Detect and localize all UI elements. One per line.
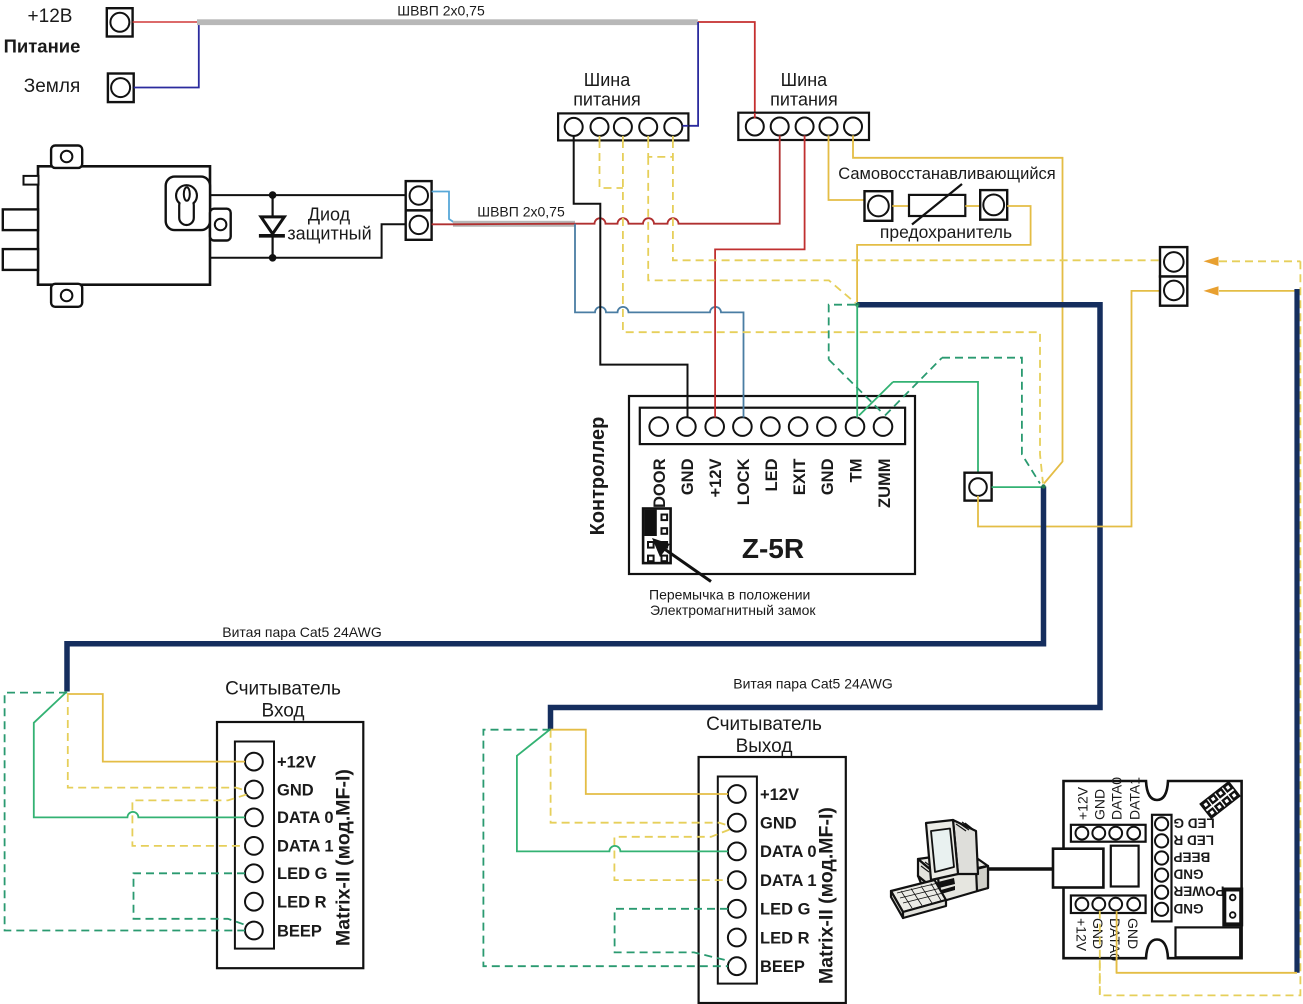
adapter bottom block <box>1176 927 1241 957</box>
wire blue cable to bus1 <box>683 22 698 126</box>
cable ШВВП 2х0,75 top <box>197 19 698 25</box>
floppy slot <box>934 878 955 889</box>
pin LED <box>761 417 780 436</box>
pin GND2 <box>817 417 836 436</box>
svg-text:LED R: LED R <box>277 894 327 912</box>
wire stub yellow adapter DATA0 <box>1116 911 1118 973</box>
svg-text:LED G: LED G <box>760 901 810 919</box>
svg-text:Витая пара Cat5 24AWG: Витая пара Cat5 24AWG <box>222 624 381 640</box>
svg-text:Matrix-II (мод.MF-I): Matrix-II (мод.MF-I) <box>333 769 355 946</box>
adapter middle block <box>1111 846 1139 887</box>
svg-text:+12В: +12В <box>28 6 73 27</box>
svg-text:Matrix-II (мод.MF-I): Matrix-II (мод.MF-I) <box>816 807 838 984</box>
wire stub black into GND <box>687 395 689 418</box>
reader 1 pin DATA 0 <box>245 809 263 827</box>
cable junction node (to reader 1) <box>1041 484 1045 488</box>
keyboard top <box>891 880 946 912</box>
wire red bus2 to controller +12V <box>715 140 805 409</box>
computer cable <box>983 867 1053 870</box>
svg-text:ШВВП 2х0,75: ШВВП 2х0,75 <box>397 3 485 19</box>
case right shade <box>976 866 988 891</box>
wire stub blue into LOCK <box>743 395 745 418</box>
wire fuse link right <box>965 205 980 207</box>
jumper arrow <box>652 538 711 582</box>
svg-text:GND: GND <box>760 815 797 833</box>
reader 1 pin GND <box>245 781 263 799</box>
svg-text:DATA0: DATA0 <box>1108 777 1124 820</box>
svg-text:LOCK: LOCK <box>735 458 753 505</box>
reader 2 wire green dashed BEEP <box>483 730 728 967</box>
svg-text:DATA 0: DATA 0 <box>277 809 334 827</box>
monitor vents <box>956 822 974 831</box>
svg-text:защитный: защитный <box>287 224 371 244</box>
terminal +12V <box>107 8 133 36</box>
reader 2 pin LED R <box>728 929 746 947</box>
svg-text:DATA0: DATA0 <box>1107 918 1123 961</box>
dashed yellow bus1 c2 jog <box>600 140 623 188</box>
reader 1 pin LED G <box>245 864 263 882</box>
wire red lock feed <box>432 140 780 224</box>
wire blue cable2 to LOCK <box>575 224 744 409</box>
svg-text:EXIT: EXIT <box>791 459 809 496</box>
pin +12V <box>705 417 724 436</box>
dashed yellow bus1 c3 long run to junction <box>623 140 1043 484</box>
wire green dashed diagonal ZUMM to right <box>885 358 942 416</box>
wire yellow bus2 c4 to fuse <box>829 140 865 200</box>
svg-text:Земля: Земля <box>24 76 80 97</box>
svg-text:питания: питания <box>770 90 838 110</box>
adapter left plug <box>1053 849 1103 888</box>
USB adapter box <box>1064 781 1242 958</box>
svg-text:TM: TM <box>848 459 866 483</box>
lock bottom mounting tab <box>51 284 82 307</box>
svg-text:предохранитель: предохранитель <box>880 222 1012 242</box>
svg-text:POWER: POWER <box>1173 884 1224 899</box>
svg-text:BEEP: BEEP <box>277 922 322 940</box>
svg-text:LED G: LED G <box>277 865 327 883</box>
lock left stub 1 <box>3 209 38 230</box>
lock left stub small <box>24 176 39 185</box>
svg-text:Шина: Шина <box>584 70 631 90</box>
dashed yellow arrow into block <box>1204 257 1301 266</box>
pin GND <box>677 417 696 436</box>
keyboard side <box>903 900 946 918</box>
reader 2 wire yellow +12V <box>551 730 729 794</box>
reader 2 Matrix-II box <box>699 757 846 1003</box>
svg-text:Вход: Вход <box>262 701 305 722</box>
lock left stub 2 <box>3 249 38 270</box>
reader 1 wire yellow +12V <box>67 694 245 762</box>
monitor right side <box>953 820 978 874</box>
svg-text:DATA1: DATA1 <box>1126 777 1142 820</box>
svg-text:Контроллер: Контроллер <box>587 417 609 536</box>
svg-text:DATA 0: DATA 0 <box>760 843 817 861</box>
navy cable to reader 2 <box>551 305 1101 729</box>
pin DOOR <box>649 417 668 436</box>
computer <box>891 820 1053 918</box>
svg-text:GND: GND <box>1173 867 1203 882</box>
wire green dashed diagonal into ZUMM <box>829 360 883 414</box>
svg-text:Электромагнитный замок: Электромагнитный замок <box>650 602 816 618</box>
reader 2 wire yellow dashed DATA 1 <box>614 830 729 881</box>
jumper block <box>643 509 671 564</box>
wire fuse link left <box>892 205 909 207</box>
reader 2 terminal strip <box>718 777 757 984</box>
svg-text:Шина: Шина <box>781 70 828 90</box>
reader 2 pin GND <box>728 814 746 832</box>
svg-text:Питание: Питание <box>4 36 81 57</box>
lock top mounting tab <box>51 146 82 168</box>
svg-text:DATA 1: DATA 1 <box>760 872 817 890</box>
case body top <box>918 852 988 876</box>
green solid wire TM to TM-contact terminal <box>893 382 978 478</box>
terminal Земля <box>108 74 134 103</box>
case vents left <box>921 862 933 872</box>
svg-text:Диод: Диод <box>308 205 351 225</box>
keyboard keys <box>897 883 943 908</box>
svg-text:BEEP: BEEP <box>1174 850 1211 865</box>
reader 1 wire green solid DATA 0 <box>34 692 245 818</box>
svg-text:Z-5R: Z-5R <box>742 533 804 564</box>
green solid wire junction to TM <box>856 305 858 413</box>
yellow wire navy end to adapter DATA0 <box>1117 910 1297 973</box>
case right <box>938 866 988 902</box>
reader 1 pin DATA 1 <box>245 837 263 855</box>
wire stubs bus1 pins <box>574 126 689 141</box>
green wire TM-contact to junction <box>992 486 1042 488</box>
svg-text:+12V: +12V <box>277 753 316 771</box>
svg-text:GND: GND <box>819 458 837 495</box>
svg-text:GND: GND <box>1090 918 1106 949</box>
yellow wire TM-contact to замок arrow row <box>978 291 1160 527</box>
svg-text:Витая пара Cat5 24AWG: Витая пара Cat5 24AWG <box>733 676 892 692</box>
reader 1 pin BEEP <box>245 922 263 940</box>
svg-text:Считыватель: Считыватель <box>225 679 341 700</box>
wire yellow fuse out to cable junction <box>857 206 1031 302</box>
wire yellow bus2 c5 to reader1 feed <box>853 140 1063 484</box>
reader 2 wire green dashed LED G to BEEP <box>615 909 730 961</box>
svg-text:DOOR: DOOR <box>651 458 669 508</box>
solid yellow arrow into block <box>1204 286 1296 295</box>
svg-text:BEEP: BEEP <box>760 958 805 976</box>
reader 1 wire yellow dashed GND <box>68 694 246 791</box>
svg-text:Самовосстанавливающийся: Самовосстанавливающийся <box>838 165 1055 183</box>
reader 1 pin +12V <box>245 753 263 771</box>
fuse left terminal <box>865 191 893 221</box>
reader 1 pin LED R <box>245 893 263 911</box>
svg-text:LED R: LED R <box>1173 832 1214 847</box>
reader 2 pin DATA 1 <box>728 871 746 889</box>
svg-text:GND: GND <box>1125 918 1141 949</box>
reader 1 terminal strip <box>235 742 274 949</box>
wire red cable to bus2 <box>698 22 755 119</box>
TM remote terminal block <box>1160 247 1187 306</box>
svg-text:+12V: +12V <box>707 459 725 498</box>
PTC fuse body <box>909 184 965 225</box>
adapter jumper header (skewed) <box>1200 782 1239 818</box>
case front bottom <box>918 876 940 902</box>
dashed yellow bus1 c4 row2 to cable junction <box>648 157 855 303</box>
pin ZUMM <box>874 417 893 436</box>
svg-text:ZUMM: ZUMM <box>876 459 894 508</box>
svg-text:Считыватель: Считыватель <box>706 714 822 735</box>
svg-text:LED G: LED G <box>1174 815 1215 830</box>
dashed yellow right edge loop <box>1100 261 1301 995</box>
navy cable to reader 1 <box>67 487 1044 692</box>
wire blue terminal to cable2 <box>432 192 455 224</box>
pin LOCK <box>733 417 752 436</box>
svg-text:Выход: Выход <box>736 736 793 757</box>
power bus 2 <box>738 113 869 140</box>
pin TM <box>846 417 865 436</box>
dashed yellow GND row to arrow block <box>648 140 673 157</box>
reader 1 Matrix-II box <box>217 722 363 968</box>
green dashed wire junction to ZUMM <box>829 305 855 360</box>
wire blue ground to cable <box>134 22 199 88</box>
reader 1 wire yellow dashed DATA 1 <box>132 795 246 846</box>
TM contact terminal <box>965 473 992 501</box>
wire green solid into TM <box>856 380 858 418</box>
reader 2 wire yellow dashed GND <box>551 730 729 826</box>
cable ШВВП 2х0,75 to lock <box>453 221 575 227</box>
monitor front <box>926 820 958 880</box>
svg-text:ШВВП 2х0,75: ШВВП 2х0,75 <box>477 204 565 220</box>
adapter bottom header <box>1071 896 1146 914</box>
controller Z-5R box <box>629 396 915 574</box>
reader 2 pin +12V <box>728 785 746 803</box>
fuse right terminal <box>980 190 1007 220</box>
reader 1 wire green dashed BEEP <box>5 693 245 931</box>
diode VD1 <box>259 191 285 261</box>
svg-text:GND: GND <box>277 781 314 799</box>
adapter top header <box>1071 825 1146 842</box>
svg-text:GND: GND <box>1091 789 1107 820</box>
power bus 1 <box>558 113 688 140</box>
wire green solid diagonal TM <box>859 382 893 416</box>
lock right tab <box>210 209 231 241</box>
cable junction node (to reader 2) <box>855 303 859 307</box>
controller terminal strip <box>640 408 905 444</box>
monitor screen <box>931 829 954 873</box>
keyboard front <box>891 891 903 918</box>
wire red +12V to cable <box>133 21 199 23</box>
svg-text:LED R: LED R <box>760 929 810 947</box>
svg-text:Перемычка в положении: Перемычка в положении <box>649 587 810 603</box>
wire lock bottom to terminal <box>210 224 406 257</box>
reader 2 pin LED G <box>728 900 746 918</box>
svg-text:GND: GND <box>679 458 697 495</box>
adapter 2-pin connector <box>1224 890 1241 925</box>
keyhole <box>176 185 197 206</box>
wire stub yellow dashed adapter GND <box>1099 911 1101 995</box>
reader 1 wire green dashed LED G to BEEP <box>134 873 248 925</box>
svg-text:+12V: +12V <box>1073 918 1089 952</box>
reader 2 pin DATA 0 <box>728 843 746 861</box>
lock cylinder plate <box>166 177 210 231</box>
svg-text:LED: LED <box>763 458 781 491</box>
navy cable right edge <box>1294 289 1299 973</box>
svg-text:питания: питания <box>573 90 641 110</box>
reader 2 pin BEEP <box>728 957 746 975</box>
adapter right strip <box>1152 815 1172 922</box>
electromagnetic lock body <box>3 146 231 307</box>
case front-left <box>918 859 940 894</box>
svg-text:GND: GND <box>1173 901 1203 916</box>
wire lock top to terminal <box>210 194 406 196</box>
wire black bus1 to controller GND <box>574 140 688 409</box>
wire stub red into +12V <box>714 395 716 418</box>
green dashed wire ZUMM to junction <box>942 358 1040 484</box>
svg-text:DATA 1: DATA 1 <box>277 838 334 856</box>
reader 2 wire green solid DATA 0 <box>517 729 728 851</box>
pin EXIT <box>789 417 808 436</box>
svg-text:+12V: +12V <box>760 786 799 804</box>
svg-text:+12V: +12V <box>1075 786 1091 820</box>
wire stubs bus2 pins <box>755 113 853 141</box>
terminal block by lock <box>406 181 432 240</box>
